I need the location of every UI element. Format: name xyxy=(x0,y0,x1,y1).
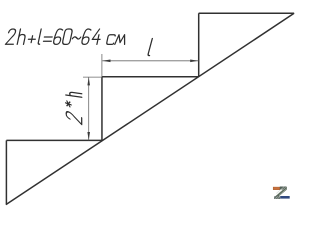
dimension 2*h: extension line top xyxy=(83,76,102,78)
logo bottom bar navy xyxy=(280,196,290,199)
glyph 4 xyxy=(91,29,102,44)
glyph * of 2*h xyxy=(66,101,72,108)
glyph + xyxy=(28,36,36,43)
stair stringer diagonal line xyxy=(6,13,294,204)
formula text 2h+l=60~64 см xyxy=(5,29,126,44)
logo bottom-left hatched piece xyxy=(274,196,280,199)
dimension 2*h: top arrowhead xyxy=(87,77,90,85)
logo top-right hatched block xyxy=(280,187,287,190)
bottom step tread xyxy=(6,139,102,141)
label 2*h rotated on vertical dimension xyxy=(66,92,82,125)
middle step tread xyxy=(102,76,199,78)
bottom step riser xyxy=(5,140,7,204)
logo diagonal hatched stroke xyxy=(275,187,287,197)
glyph l xyxy=(38,29,43,44)
dimension 2*h: bottom arrowhead xyxy=(87,132,90,140)
top step riser xyxy=(198,13,200,77)
label l on dimension line xyxy=(148,39,154,56)
logo bottom-left hatch stripes xyxy=(275,196,280,199)
logo top bar orange xyxy=(273,187,280,190)
logo diagonal hatch stripes xyxy=(276,187,286,195)
glyph ~ xyxy=(72,37,80,39)
glyph 2 of 2*h xyxy=(66,111,82,125)
dimension l: right arrowhead xyxy=(190,60,198,63)
glyph 6 xyxy=(53,29,63,44)
dimension l: left arrowhead xyxy=(102,60,110,63)
dimension l: dimension line xyxy=(102,60,198,62)
dimension l: extension line left xyxy=(101,54,103,77)
glyph 2 xyxy=(5,29,16,44)
top step tread xyxy=(199,12,294,14)
logo top-right hatch stripes xyxy=(281,187,286,190)
glyph = xyxy=(43,37,52,41)
glyph 6 second xyxy=(81,29,91,44)
glyph м xyxy=(115,35,127,45)
glyph h xyxy=(17,29,27,44)
dimension 2*h: dimension line xyxy=(88,77,90,140)
middle step riser xyxy=(101,77,103,141)
glyph h of 2*h xyxy=(66,92,82,98)
watermark logo Z bottom-right xyxy=(273,187,290,200)
glyph 0 xyxy=(62,29,73,44)
glyph с xyxy=(106,35,115,45)
